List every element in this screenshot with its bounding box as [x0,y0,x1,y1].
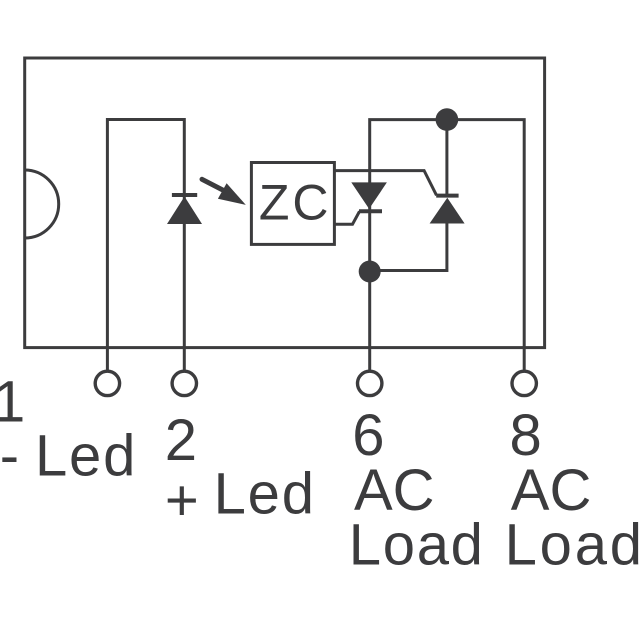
junction dot bottom [359,261,381,283]
pin 6 terminal [358,371,382,395]
wire: SCR2 branch vertical from top bus [445,120,448,196]
wire: pin 6 up, top bus across to pin 8 down [370,120,525,372]
svg-text:Load: Load [505,513,640,578]
pin 2 terminal [172,371,196,395]
wire: SCR2 anode down and left to junction [370,224,447,271]
package notch (pin-1 index semicircle) [25,170,59,238]
wire: pin 1 up, across, down to pin 2 (LED branch) [107,120,184,372]
light emission arrow [202,179,246,205]
svg-text:2: 2 [165,408,197,473]
svg-text:+Led: +Led [165,461,316,533]
LED emitter diode (cathode bar + triangle) [167,195,202,224]
SCR2 (up-pointing thyristor) [430,196,465,224]
junction dot top [436,108,459,131]
wire: ZC output to SCR1 gate [334,211,359,224]
package outline [25,58,545,348]
svg-text:ZC: ZC [259,175,332,231]
zero-crossing detector box U1 [251,163,334,245]
svg-text:Load: Load [349,513,485,578]
pin 1 terminal [95,371,119,395]
SCR1 (down-pointing thyristor) [351,182,387,211]
pin 8 terminal [512,371,536,395]
wire: ZC output to SCR2 gate [334,171,436,196]
